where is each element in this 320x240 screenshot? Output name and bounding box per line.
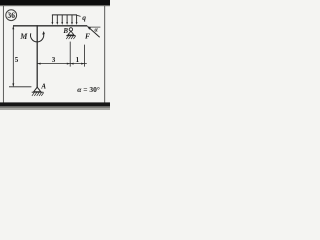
moment M arc (31, 33, 44, 42)
hatching under A (32, 93, 44, 96)
dimension line 3 and 1 (37, 63, 87, 65)
beam (horizontal member) (13, 25, 87, 27)
dim 5 top arrowhead (12, 26, 14, 29)
svg-text:B: B (62, 27, 68, 35)
distributed load top line (52, 14, 77, 16)
load arrow 1 (52, 15, 76, 23)
bottom black bar (0, 102, 110, 106)
hatching under B (66, 36, 75, 39)
svg-text:M: M (19, 32, 28, 41)
dimension 5 vertical line (12, 26, 14, 86)
svg-text:A: A (40, 83, 46, 91)
svg-text:36: 36 (8, 11, 15, 20)
extension line below B (69, 42, 71, 67)
arrowhead at column (37, 63, 40, 65)
svg-text:5: 5 (15, 56, 19, 64)
column (vertical member) (36, 25, 38, 87)
pin support A triangle (34, 87, 41, 92)
dim 5 bottom arrowhead (12, 83, 14, 86)
angle reference line (89, 26, 101, 28)
arrowheads at B extension (67, 63, 70, 65)
extension line at A level (9, 86, 31, 88)
arrowhead at F extension (81, 63, 84, 65)
left page border (2, 6, 4, 103)
svg-text:3: 3 (52, 56, 56, 64)
F arrowhead (87, 26, 91, 29)
q leader (77, 15, 81, 16)
roller support B (66, 28, 76, 36)
force F vector (88, 26, 100, 37)
svg-text:1: 1 (76, 56, 80, 64)
svg-text:F: F (85, 31, 90, 40)
right page border (104, 6, 106, 103)
svg-text:α = 30°: α = 30° (77, 85, 100, 94)
extension line below F (84, 45, 86, 67)
circled figure number 36 (6, 10, 17, 21)
svg-text:q: q (82, 13, 86, 22)
paper background (0, 0, 110, 110)
ground line at A (32, 91, 44, 93)
moment arrowhead (42, 31, 45, 35)
top black band (0, 0, 110, 5)
